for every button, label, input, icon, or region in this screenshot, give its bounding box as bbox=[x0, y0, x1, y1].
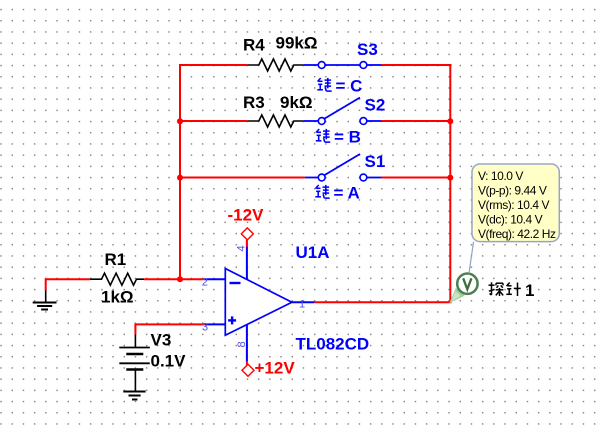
pin 3 number label bbox=[202, 322, 208, 334]
probe tooltip readout box bbox=[472, 164, 559, 242]
op-amp non-inverting input plus symbol bbox=[228, 316, 236, 324]
junction at left bus / branch3 bbox=[177, 175, 183, 181]
label -12V bbox=[228, 206, 265, 225]
wire branch2 right bbox=[382, 120, 452, 122]
label R4 bbox=[243, 36, 265, 55]
label 99kΩ value of R4 bbox=[276, 34, 318, 53]
junction op-amp inverting input node bbox=[177, 276, 183, 282]
label S3 bbox=[357, 40, 378, 59]
svg-text:V: 10.0 V: V: 10.0 V bbox=[478, 169, 523, 183]
label R3 bbox=[243, 93, 265, 112]
wire R1 to op-amp input node bbox=[144, 278, 205, 280]
pin 4 number label (rotated) bbox=[236, 245, 248, 251]
svg-text:+12V: +12V bbox=[255, 359, 296, 378]
svg-text:S1: S1 bbox=[365, 152, 386, 171]
source V3 bbox=[119, 334, 150, 391]
wire stub to -12V bbox=[246, 240, 248, 247]
junction at right bus / branch3 bbox=[447, 175, 453, 181]
label 键 = B key label of S2 bbox=[316, 128, 361, 147]
wire branch2 left (to R3) bbox=[180, 120, 248, 122]
label V3 bbox=[151, 331, 172, 350]
svg-text:99kΩ: 99kΩ bbox=[276, 34, 318, 53]
svg-text:S3: S3 bbox=[357, 40, 378, 59]
op-amp U1A triangle bbox=[225, 269, 292, 336]
svg-text:S2: S2 bbox=[365, 96, 386, 115]
svg-text:= A: = A bbox=[334, 184, 360, 203]
svg-text:R3: R3 bbox=[243, 93, 265, 112]
label 1kΩ value of R1 bbox=[101, 288, 134, 307]
junction at left bus / branch2 bbox=[177, 118, 183, 124]
pin 3 lead of U1A bbox=[205, 323, 226, 325]
svg-text:= C: = C bbox=[336, 77, 363, 96]
svg-text:8: 8 bbox=[236, 341, 248, 347]
pin 2 number label bbox=[202, 276, 208, 288]
svg-text:R4: R4 bbox=[243, 36, 265, 55]
wire output to right bus bbox=[314, 301, 451, 303]
svg-text:0.1V: 0.1V bbox=[151, 352, 187, 371]
svg-text:4: 4 bbox=[236, 245, 248, 251]
wire stub to +12V bbox=[246, 361, 248, 365]
pin 8 lead (V+ supply) bbox=[246, 325, 248, 362]
wire branch3 left bbox=[180, 177, 305, 179]
svg-text:-12V: -12V bbox=[228, 206, 265, 225]
junction at right bus / branch2 bbox=[447, 118, 453, 124]
svg-text:V(rms): 10.4 V: V(rms): 10.4 V bbox=[478, 198, 549, 212]
label +12V bbox=[255, 359, 296, 378]
svg-text:R1: R1 bbox=[105, 250, 127, 269]
svg-text:V(p-p): 9.44 V: V(p-p): 9.44 V bbox=[478, 184, 547, 198]
probe label 探针1 bbox=[489, 281, 535, 300]
label 0.1V value of V3 bbox=[151, 352, 187, 371]
power -12V diamond symbol bbox=[241, 228, 253, 240]
svg-text:= B: = B bbox=[334, 128, 361, 147]
label U1A bbox=[296, 243, 330, 262]
resistor R4 bbox=[248, 59, 304, 71]
label TL082CD part number bbox=[296, 335, 370, 354]
wire ground stub to R1 bbox=[46, 279, 90, 290]
wire right vertical bus bbox=[449, 65, 451, 302]
pin 1 number label bbox=[299, 299, 305, 311]
svg-text:2: 2 bbox=[202, 276, 208, 288]
label S1 bbox=[365, 152, 386, 171]
svg-text:9kΩ: 9kΩ bbox=[280, 93, 313, 112]
svg-text:1: 1 bbox=[525, 281, 534, 300]
pin 1 output lead bbox=[292, 301, 315, 303]
pin 4 lead (V- supply) bbox=[246, 246, 248, 279]
label 9kΩ value of R3 bbox=[280, 93, 313, 112]
ground at R1 input bbox=[33, 290, 57, 310]
label 键 = C key label of S3 bbox=[317, 77, 362, 96]
svg-text:3: 3 bbox=[202, 322, 208, 334]
pin 2 lead of U1A bbox=[205, 278, 226, 280]
svg-text:TL082CD: TL082CD bbox=[296, 335, 370, 354]
label R1 bbox=[105, 250, 127, 269]
power +12V diamond symbol bbox=[242, 364, 254, 376]
svg-text:U1A: U1A bbox=[296, 243, 330, 262]
wire V3 to pin 3 bbox=[135, 324, 204, 334]
op-amp inverting input minus symbol bbox=[230, 282, 241, 284]
probe 探针1 magnifier symbol bbox=[449, 274, 477, 304]
probe tooltip connector line bbox=[469, 242, 474, 274]
switch S2 (open) bbox=[303, 98, 381, 125]
label 键 = A key label of S1 bbox=[315, 184, 359, 203]
svg-text:V(dc): 10.4 V: V(dc): 10.4 V bbox=[478, 213, 543, 227]
svg-text:V(freq): 42.2 Hz: V(freq): 42.2 Hz bbox=[478, 227, 556, 241]
switch S3 (closed) bbox=[303, 62, 381, 69]
resistor R1 bbox=[90, 273, 144, 285]
label S2 bbox=[365, 96, 386, 115]
switch S1 (open) bbox=[305, 154, 382, 181]
resistor R3 bbox=[248, 115, 304, 127]
ground under V3 bbox=[123, 392, 145, 400]
svg-text:1kΩ: 1kΩ bbox=[101, 288, 134, 307]
wire branch3 right bbox=[382, 177, 452, 179]
svg-text:V3: V3 bbox=[151, 331, 172, 350]
wire branch1 right bbox=[382, 64, 452, 66]
wire branch1 left (to R4) bbox=[179, 64, 248, 66]
svg-text:1: 1 bbox=[299, 299, 305, 311]
wire left vertical feedback bus bbox=[179, 65, 181, 280]
pin 8 number label (rotated) bbox=[236, 341, 248, 347]
